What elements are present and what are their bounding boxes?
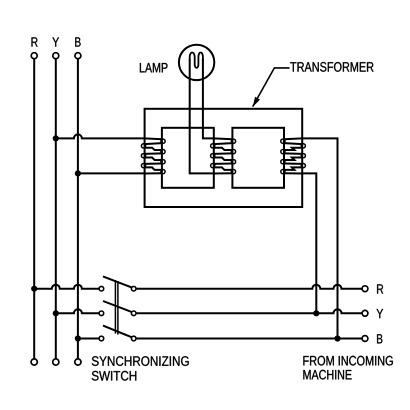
wire B bus vertical	[77, 59, 79, 359]
wire row R left (R bus to switch, hops over Y and B)	[34, 285, 99, 289]
wire row R right (switch to incoming terminal, hops over both verticals)	[136, 285, 362, 289]
label R incoming	[377, 284, 383, 293]
lamp bulb	[179, 45, 214, 80]
label SYNCHRONIZING SWITCH	[92, 356, 189, 366]
junction dot Y tap	[53, 135, 59, 141]
wire R bus vertical	[33, 59, 35, 359]
junction dot B row	[75, 335, 81, 341]
terminal R bottom	[31, 359, 37, 365]
label B incoming	[377, 334, 382, 343]
transformer core right	[232, 128, 284, 188]
wire lamp lead left (to W2 bottom)	[190, 59, 214, 173]
terminal R incoming	[362, 286, 368, 292]
label FROM INCOMING MACHINE	[303, 356, 392, 366]
junction dot Y row	[53, 310, 59, 316]
leader line transformer	[253, 68, 290, 107]
terminal B incoming	[362, 336, 368, 342]
switch contact right R	[131, 286, 136, 291]
terminal Y top	[53, 53, 59, 59]
wire Y bus vertical	[55, 59, 57, 359]
label LAMP	[140, 63, 168, 72]
wire row B right	[136, 338, 362, 340]
terminal B top	[75, 53, 81, 59]
transformer core left	[162, 128, 214, 188]
switch contact right B	[131, 336, 136, 341]
wire row B left	[78, 338, 99, 340]
label TRANSFORMER	[290, 62, 373, 72]
switch blade Y	[103, 301, 132, 312]
label B (top supply)	[75, 37, 80, 46]
wire B to transformer primary bottom	[78, 172, 145, 174]
wire W3 top to incoming B bus	[302, 138, 337, 338]
switch contact left Y	[99, 311, 104, 316]
label Y (top supply)	[52, 37, 59, 46]
terminal B bottom	[75, 359, 81, 365]
wire row Y left (hop over B)	[56, 309, 99, 313]
wire lamp lead right (to W2 top)	[203, 59, 214, 138]
junction dot B incoming	[334, 335, 340, 341]
wire Y to transformer primary top (hop over B)	[56, 134, 145, 138]
junction dot Y incoming	[313, 310, 319, 316]
junction dot R row	[31, 286, 37, 292]
winding W1 (left primary)	[141, 138, 165, 173]
winding W3 (right secondary)	[281, 138, 306, 173]
switch blade R	[103, 276, 132, 287]
label Y incoming	[377, 309, 384, 318]
switch contact left R	[99, 286, 104, 291]
switch blade B	[103, 326, 132, 338]
winding W2 (middle, lamp winding)	[211, 138, 236, 173]
terminal Y incoming	[362, 310, 368, 316]
switch contact right Y	[131, 311, 136, 316]
junction dot B tap	[75, 170, 81, 176]
wire row Y right (hop over second vertical)	[136, 309, 362, 313]
switch contact left B	[99, 336, 104, 341]
wire W3 bottom to incoming Y bus	[302, 173, 316, 313]
arrowhead transformer	[253, 97, 260, 107]
transformer outer box	[145, 109, 303, 207]
terminal R top	[31, 53, 37, 59]
label R (top supply)	[32, 37, 38, 46]
lamp filament	[190, 52, 203, 67]
switch gang link	[114, 280, 116, 333]
terminal Y bottom	[53, 359, 59, 365]
